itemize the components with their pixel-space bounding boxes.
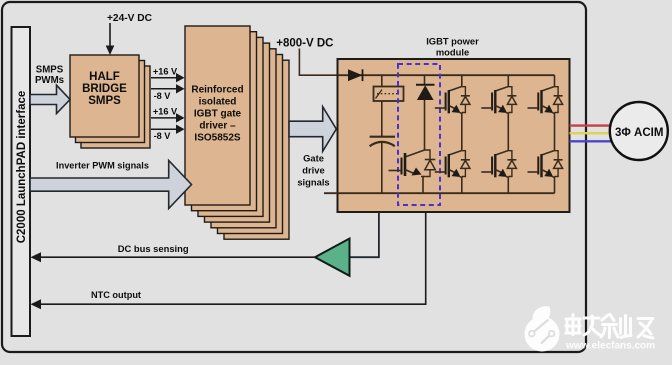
svg-text:+16 V: +16 V [153,67,178,77]
svg-text:+16 V: +16 V [153,107,178,117]
top rail DC+ wire [338,74,555,76]
motor M1 3-phase ACIM [610,102,668,160]
SMPS PWMs block arrow [30,85,70,113]
phase wire U red [570,124,612,126]
svg-text:isolated: isolated [199,97,237,108]
svg-text:+800-V DC: +800-V DC [276,38,333,50]
svg-text:+24-V DC: +24-V DC [107,13,153,24]
wire DC bus sense drop [350,212,379,257]
transistor Q1 top IGBT leg A [435,87,462,114]
transistor Q2 bottom IGBT leg A [435,151,462,178]
phase leg C [554,75,556,193]
phase wire V yellow [570,132,612,134]
svg-text:drive: drive [302,164,324,175]
diode D6 freewheel top leg B [507,87,516,113]
IGBT power module label [426,36,479,58]
gate driver U1 stack ISO5852S [185,26,289,239]
transistor Q4 bottom IGBT leg B [481,151,508,178]
svg-text:-8 V: -8 V [154,91,172,101]
wire +24V supply arrow [106,23,115,55]
SMPS PWMs label [35,65,64,87]
brake chopper dashed highlight box [398,64,440,205]
svg-text:3Φ ACIM: 3Φ ACIM [615,127,663,139]
svg-text:HALF: HALF [89,71,120,83]
diode D3 brake freewheel [423,150,435,177]
thermistor RT1 [374,87,404,102]
svg-text:signals: signals [297,176,329,187]
Gate drive signals label [297,152,329,187]
svg-text:Gate: Gate [303,152,324,163]
svg-text:Reinforced: Reinforced [191,85,243,96]
wire bus to thermistor [381,75,383,86]
wire -8V (bottom) [151,125,185,134]
bottom rail / gate return wire [324,192,555,194]
svg-text:DC bus sensing: DC bus sensing [118,243,189,254]
wire brake diode to IGBT [424,100,426,150]
phase leg B [507,75,509,193]
svg-text:www.elecfans.com: www.elecfans.com [565,341,655,352]
svg-text:SMPS: SMPS [88,95,121,107]
wire +16V (top) [151,73,185,82]
wire brake leg from top rail [424,75,426,85]
diode D2 brake [416,85,435,100]
half-bridge SMPS stack [70,55,150,148]
Inverter PWM signals block arrow [30,161,192,209]
wire NTC output [31,212,426,309]
diode D4 freewheel top leg A [461,87,470,113]
IGBT power module box [338,59,570,212]
transistor Q3 top IGBT leg B [481,87,508,114]
wire +800V feed [299,49,338,76]
wire -8V (upper) [151,84,185,93]
wire thermistor to capacitor [381,101,383,137]
wire DC bus sensing to interface [31,252,316,262]
svg-text:PWMs: PWMs [35,75,64,86]
svg-text:driver –: driver – [199,120,236,131]
phase leg A [461,75,463,193]
diode D8 freewheel top leg C [554,87,563,113]
watermark chinese text [566,315,653,339]
svg-text:ISO5852S: ISO5852S [194,132,240,143]
svg-text:IGBT power: IGBT power [426,36,479,47]
Gate drive signals block arrow [289,107,336,152]
watermark logo [525,306,560,351]
svg-text:Inverter PWM signals: Inverter PWM signals [56,161,149,171]
svg-text:-8 V: -8 V [154,131,172,141]
phase wire W blue [570,140,612,142]
diode D7 freewheel bottom leg B [507,151,516,177]
C2000 LaunchPAD interface bar [12,27,31,336]
transistor Q7 brake IGBT [389,150,425,193]
svg-text:SMPS: SMPS [36,65,64,76]
transistor Q5 top IGBT leg C [528,87,555,114]
diode D1 bus input [348,69,363,81]
svg-text:BRIDGE: BRIDGE [82,83,127,95]
wire capacitor to bottom rail [381,142,383,193]
svg-text:module: module [436,46,469,57]
wire +16V (lower) [151,113,185,122]
capacitor C1 DC link [370,137,395,147]
svg-text:C2000 LaunchPAD interface: C2000 LaunchPAD interface [16,91,28,244]
svg-text:IGBT gate: IGBT gate [194,109,242,120]
op-amp U2 bus sense buffer [315,239,350,276]
diode D5 freewheel bottom leg A [461,151,470,177]
transistor Q6 bottom IGBT leg C [528,151,555,178]
svg-text:NTC output: NTC output [91,290,141,300]
diode D9 freewheel bottom leg C [554,151,563,177]
